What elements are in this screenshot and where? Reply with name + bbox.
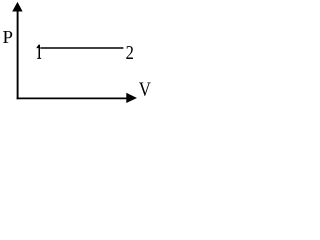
svg-text:V: V — [139, 78, 152, 100]
svg-text:2: 2 — [126, 42, 134, 64]
svg-text:P: P — [3, 27, 13, 46]
